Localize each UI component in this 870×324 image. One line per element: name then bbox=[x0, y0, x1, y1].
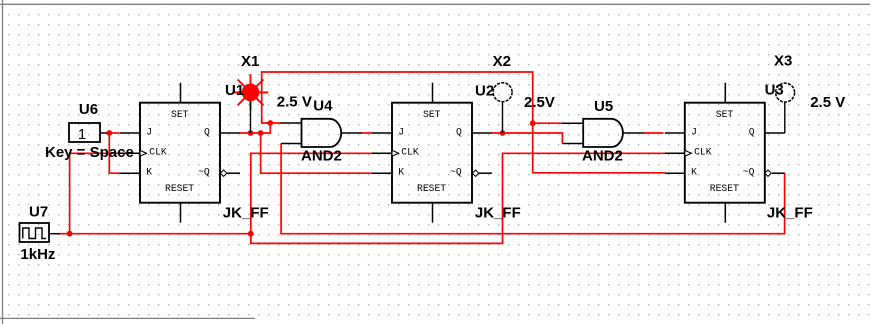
wire: U5 output to FF3 J bbox=[643, 132, 664, 134]
junction X2 lamp pin bbox=[500, 130, 506, 136]
wire: U6 output to FF1 J bbox=[106, 132, 120, 134]
svg-text:SET: SET bbox=[716, 109, 734, 120]
svg-text:SET: SET bbox=[423, 109, 441, 120]
svg-text:X2: X2 bbox=[493, 53, 511, 70]
svg-text:U2: U2 bbox=[475, 82, 494, 99]
JK flip-flop U FF2 bbox=[372, 83, 492, 223]
svg-text:AND2: AND2 bbox=[301, 147, 342, 164]
svg-text:2.5V: 2.5V bbox=[524, 94, 555, 111]
junction U5 input A bbox=[530, 120, 536, 126]
svg-text:U3: U3 bbox=[765, 82, 784, 99]
svg-text:JK_FF: JK_FF bbox=[475, 205, 521, 222]
svg-text:JK_FF: JK_FF bbox=[767, 205, 813, 222]
svg-text:RESET: RESET bbox=[417, 183, 446, 194]
clock source U7 bbox=[20, 223, 60, 242]
svg-text:J: J bbox=[398, 127, 404, 138]
junction U4 input A bbox=[267, 120, 273, 126]
wire: clock riser to FF2 CLK bbox=[251, 153, 372, 233]
svg-text:Key = Space: Key = Space bbox=[45, 144, 134, 161]
wire: clock net U7 output to junction bbox=[59, 233, 70, 235]
probe X3 (off) bbox=[776, 83, 795, 133]
svg-text:2.5 V: 2.5 V bbox=[810, 94, 845, 111]
svg-text:JK_FF: JK_FF bbox=[223, 205, 269, 222]
wire: Q1 jog up to U4 input A junction bbox=[261, 123, 281, 133]
svg-text:RESET: RESET bbox=[710, 183, 739, 194]
svg-text:~Q: ~Q bbox=[450, 167, 462, 178]
svg-text:2.5 V: 2.5 V bbox=[277, 94, 312, 111]
switch U6 bbox=[69, 123, 107, 143]
svg-text:X3: X3 bbox=[774, 52, 792, 69]
svg-text:Q: Q bbox=[204, 127, 210, 138]
wire: U6 branch down to FF1 K bbox=[109, 133, 120, 173]
svg-text:U4: U4 bbox=[313, 97, 333, 114]
svg-text:1kHz: 1kHz bbox=[20, 246, 55, 263]
svg-text:RESET: RESET bbox=[165, 183, 194, 194]
and-gate U5 bbox=[562, 119, 644, 147]
probe X1 (lit) bbox=[233, 74, 269, 133]
wire: U4 output to FF2 J bbox=[361, 132, 372, 134]
wire: ~Q3 net FF3 ~Q down and across to U4 input B bbox=[281, 144, 784, 234]
wire: clock jog down right to FF3 riser bbox=[251, 153, 665, 243]
svg-text:SET: SET bbox=[171, 109, 189, 120]
wire: Q1 down to FF2 K bbox=[261, 133, 372, 173]
wire: Q2 net FF2 Q to U5 input B bbox=[492, 133, 562, 144]
junction Q1 branch bbox=[258, 130, 264, 136]
svg-text:J: J bbox=[146, 127, 152, 138]
junction U7 clock bbox=[67, 231, 73, 237]
probe X2 (off) bbox=[493, 83, 512, 133]
wire: Q1 top run over to U5/FF3 bbox=[262, 72, 665, 173]
svg-text:U5: U5 bbox=[594, 98, 613, 115]
svg-text:~Q: ~Q bbox=[743, 167, 755, 178]
junction X1 lamp pin bbox=[248, 130, 254, 136]
svg-text:Q: Q bbox=[456, 127, 462, 138]
svg-text:1: 1 bbox=[78, 126, 86, 143]
svg-text:AND2: AND2 bbox=[582, 147, 623, 164]
wire: clock riser to FF1 CLK bbox=[70, 153, 120, 233]
wire: Q1 branch to U5 input A bbox=[533, 122, 562, 124]
svg-text:K: K bbox=[146, 167, 152, 178]
junction U6 output bbox=[106, 130, 112, 136]
svg-text:CLK: CLK bbox=[401, 147, 419, 158]
wire: Q1 net FF1 Q to lamp junctions bbox=[240, 132, 261, 134]
svg-text:K: K bbox=[691, 167, 697, 178]
svg-text:K: K bbox=[398, 167, 404, 178]
svg-text:CLK: CLK bbox=[149, 147, 167, 158]
JK flip-flop U FF3 bbox=[665, 83, 785, 223]
JK flip-flop U FF1 bbox=[120, 83, 240, 223]
wire: clock net bottom run to FF2 riser bbox=[70, 233, 251, 235]
svg-text:U1: U1 bbox=[225, 82, 244, 99]
svg-text:Q: Q bbox=[749, 127, 755, 138]
and-gate U4 bbox=[281, 119, 362, 147]
svg-text:X1: X1 bbox=[241, 53, 259, 70]
svg-text:J: J bbox=[691, 127, 697, 138]
svg-text:U7: U7 bbox=[29, 204, 48, 221]
svg-text:~Q: ~Q bbox=[198, 167, 210, 178]
svg-text:U6: U6 bbox=[79, 101, 98, 118]
svg-text:CLK: CLK bbox=[694, 147, 712, 158]
junction clock FF2 riser bbox=[248, 231, 254, 237]
